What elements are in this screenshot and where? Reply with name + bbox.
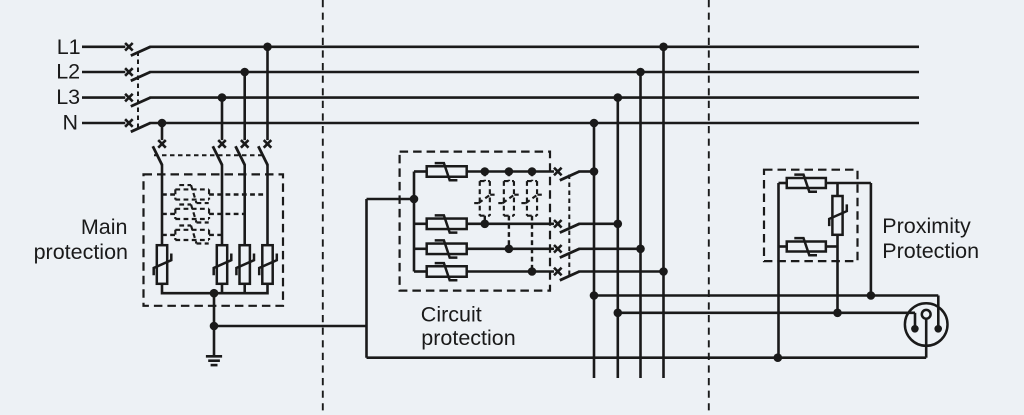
node proximity PE junction [774,353,783,362]
node row4 to L1 riser junction [659,267,668,276]
wire L1 drop to varistor [266,165,269,246]
node L1 tap junction (main protection) [263,43,272,52]
wire L3 varistor to PE bus [221,284,224,295]
ground symbol [206,356,222,365]
wire L3 bus [150,96,920,99]
label Main [81,215,128,239]
node L1 tap junction (distribution) [659,43,668,52]
node row3 to L2 riser junction [636,245,645,254]
circuit protection enclosure (dashed box) [400,152,550,291]
node row2 to L3 riser junction [614,220,623,229]
wire L1 feeder stub [82,45,125,48]
switch blade N main disconnect [131,123,151,132]
wire proximity top right lead [826,182,871,185]
wire L2 varistor to PE bus [243,284,246,295]
wire N feeder stub [82,122,125,125]
wire L3 drop to varistor [221,165,224,246]
wire row4 to switch [467,270,554,273]
wire center varistor bottom lead [836,235,839,247]
svg-text:L3: L3 [56,85,80,109]
varistor N main protection [154,245,172,284]
optional arrester N-L2 (dashed varistor) [175,205,209,223]
wire PE feed to circuit protection [367,198,415,201]
wire L2 drop to switch [243,72,246,140]
node L2 tap junction (distribution) [636,68,645,77]
node row1 arrester tap x532.0 [528,167,537,176]
wire N varistor to PE bus [161,284,164,295]
wire L1 varistor to PE bus [266,284,269,295]
wire socket line phase A [594,294,938,297]
node circuit protection feed junction [410,195,419,204]
wire dashed lead N to arrester (y194.5) [162,193,175,195]
wire row1 left lead [414,170,427,173]
wire socket earth lead [925,318,928,358]
varistor row4 circuit protection [427,263,467,280]
fuse mark row3 output switch [554,245,562,253]
wire socket phase A down lead [937,296,940,328]
gang link protection switches (dashed) [154,154,262,156]
zone divider 1 (dashed) [322,0,324,415]
node L3 tap junction (main protection) [218,93,227,102]
fuse mark L2 main disconnect [125,68,133,76]
node row2 arrester junction x484.8 [481,220,490,229]
wire proximity bottom lead [779,245,787,248]
node N tap junction (distribution) [590,119,599,128]
proximity protection enclosure (dashed box) [764,170,858,261]
node L3 tap junction (distribution) [614,93,623,102]
svg-text:L1: L1 [57,35,81,59]
fuse mark row4 output switch [554,268,562,276]
wire dashed lead arrester to row4 [531,216,533,272]
switch blade row1 output switch [560,172,580,181]
wire dashed lead arrester to row3 [508,216,510,249]
fuse mark N protection switch [158,140,166,148]
wire earth lead [213,326,216,355]
node N tap junction (main protection) [158,119,167,128]
svg-text:protection: protection [34,240,128,264]
wire L2 distribution riser [639,72,642,378]
wire center varistor top lead [836,183,839,196]
node N riser to socket-line junction [590,291,599,300]
label protection (circuit) [421,326,515,350]
wire dashed lead N to arrester (y234.9) [162,234,175,236]
wire PE line to socket [367,356,927,359]
fuse mark L1 protection switch [264,140,272,148]
wire row2 left lead [414,223,427,226]
label L2 [56,59,80,83]
node PE bus junction [210,289,219,298]
node proximity phase B junction [833,309,842,318]
wire socket line phase B [618,311,915,314]
node row1 arrester tap x484.8 [481,167,490,176]
label L1 [57,35,81,59]
wire dashed lead arrester to L2 [209,213,245,215]
optional arrester (dashed varistor) x508.9 [498,181,518,216]
wire dashed lead N to arrester (y213.9) [162,213,175,215]
switch blade row2 output switch [560,224,580,233]
wire L2 bus [150,71,920,74]
socket outline (circle) [905,303,948,346]
label protection (main) [34,240,128,264]
node L3 riser to socket-line junction [614,309,623,318]
wire proximity drop to phase A [870,183,873,296]
fuse mark N main disconnect [125,119,133,127]
wire row2 to L3 riser [579,223,618,226]
optional arrester N-L3 (dashed varistor) [175,226,209,244]
wire dashed lead row1 to arrester x532.0 [531,172,533,182]
switch blade row3 output switch [560,249,580,258]
switch blade L2 protection switch [236,146,245,165]
varistor proximity bottom [787,238,826,255]
wire proximity top lead [779,182,787,185]
varistor row1 circuit protection [427,163,467,180]
wire L2 feeder stub [82,71,125,74]
node proximity phase A junction [867,291,876,300]
switch blade row4 output switch [560,272,580,281]
optional arrester (dashed varistor) x532.0 [521,181,541,216]
varistor row3 circuit protection [427,240,467,257]
socket earth pin (open circle) [922,310,931,319]
varistor L1 main protection [259,245,277,284]
varistor L3 main protection [214,245,232,284]
wire proximity bottom right lead [826,245,838,248]
wire dashed lead row1 to arrester x508.9 [508,172,510,182]
wire N bus [150,122,920,125]
switch blade L3 protection switch [213,146,222,165]
varistor L2 main protection [236,245,254,284]
svg-text:protection: protection [421,326,515,350]
fuse mark row2 output switch [554,220,562,228]
switch blade L1 protection switch [258,146,267,165]
varistor proximity top [787,175,826,192]
label Circuit [421,302,482,326]
fuse mark row1 output switch [554,168,562,176]
node PE lateral junction [210,322,219,331]
label N [63,111,79,135]
svg-text:N: N [63,111,79,135]
socket pin left [911,325,919,333]
node row1 arrester tap x508.9 [505,167,514,176]
fuse mark L1 main disconnect [125,43,133,51]
wire PE lateral to circuit protection [214,325,367,328]
wire N drop to switch [161,123,164,140]
wire dashed lead row1 to arrester x484.8 [484,172,486,182]
wire L1 drop to switch [266,47,269,140]
switch blade N protection switch [153,146,162,165]
fuse mark L2 protection switch [241,140,249,148]
switch blade L2 main disconnect [131,72,151,81]
zone divider 2 (dashed) [708,0,710,415]
node row3 arrester junction x508.9 [505,245,514,254]
wire dashed lead arrester to L3 [209,234,222,236]
wire L3 feeder stub [82,96,125,99]
optional arrester N-L1 (dashed varistor) [175,185,209,203]
label Proximity [882,214,971,238]
main protection enclosure (dashed box) [144,174,284,305]
gang link main disconnect (dashed) [137,52,139,129]
wire row3 to switch [467,248,554,251]
wire row4 to L1 riser [579,270,664,273]
wire row1 to switch [467,170,554,173]
wire L3 drop to switch [221,98,224,141]
node row1 to N riser junction [590,167,599,176]
svg-text:Protection: Protection [882,239,979,263]
wire dashed lead arrester to L1 [209,193,267,195]
svg-text:Main: Main [81,215,128,239]
wire PE collecting bus (main protection) [162,292,268,295]
wire socket phase B down lead [914,313,917,327]
wire proximity left bus [777,183,780,358]
wire dashed lead arrester to row2 [484,216,486,224]
wire row3 left lead [414,248,427,251]
wire row4 left lead [414,270,427,273]
fuse mark L3 protection switch [218,140,226,148]
label L3 [56,85,80,109]
socket pin right [934,325,942,333]
switch blade L1 main disconnect [131,47,151,56]
wire row1 to N riser [579,170,595,173]
wire L1 distribution riser [662,47,665,378]
switch blade L3 main disconnect [131,98,151,107]
wire L3 distribution riser [616,98,619,378]
wire N drop to varistor [161,165,164,246]
wire row2 to switch [467,223,554,226]
wire PE feed riser [365,199,368,358]
node row4 arrester junction x532.0 [528,267,537,276]
wire proximity drop to phase B [836,247,839,313]
varistor proximity center [829,196,847,235]
svg-text:Circuit: Circuit [421,302,482,326]
label Protection (proximity) [882,239,979,263]
wire row3 to L2 riser [579,248,641,251]
wire L1 bus [150,45,920,48]
wire PE drop [213,293,216,326]
wire N distribution riser [593,123,596,378]
node L2 tap junction (main protection) [240,68,249,77]
wire L2 drop to varistor [243,165,246,246]
svg-text:L2: L2 [56,59,80,83]
wire circuit protection left bus [413,172,416,272]
gang link output switches (dashed) [568,175,570,276]
varistor row2 circuit protection [427,215,467,232]
svg-text:Proximity: Proximity [882,214,971,238]
fuse mark L3 main disconnect [125,94,133,102]
optional arrester (dashed varistor) x484.8 [474,181,494,216]
